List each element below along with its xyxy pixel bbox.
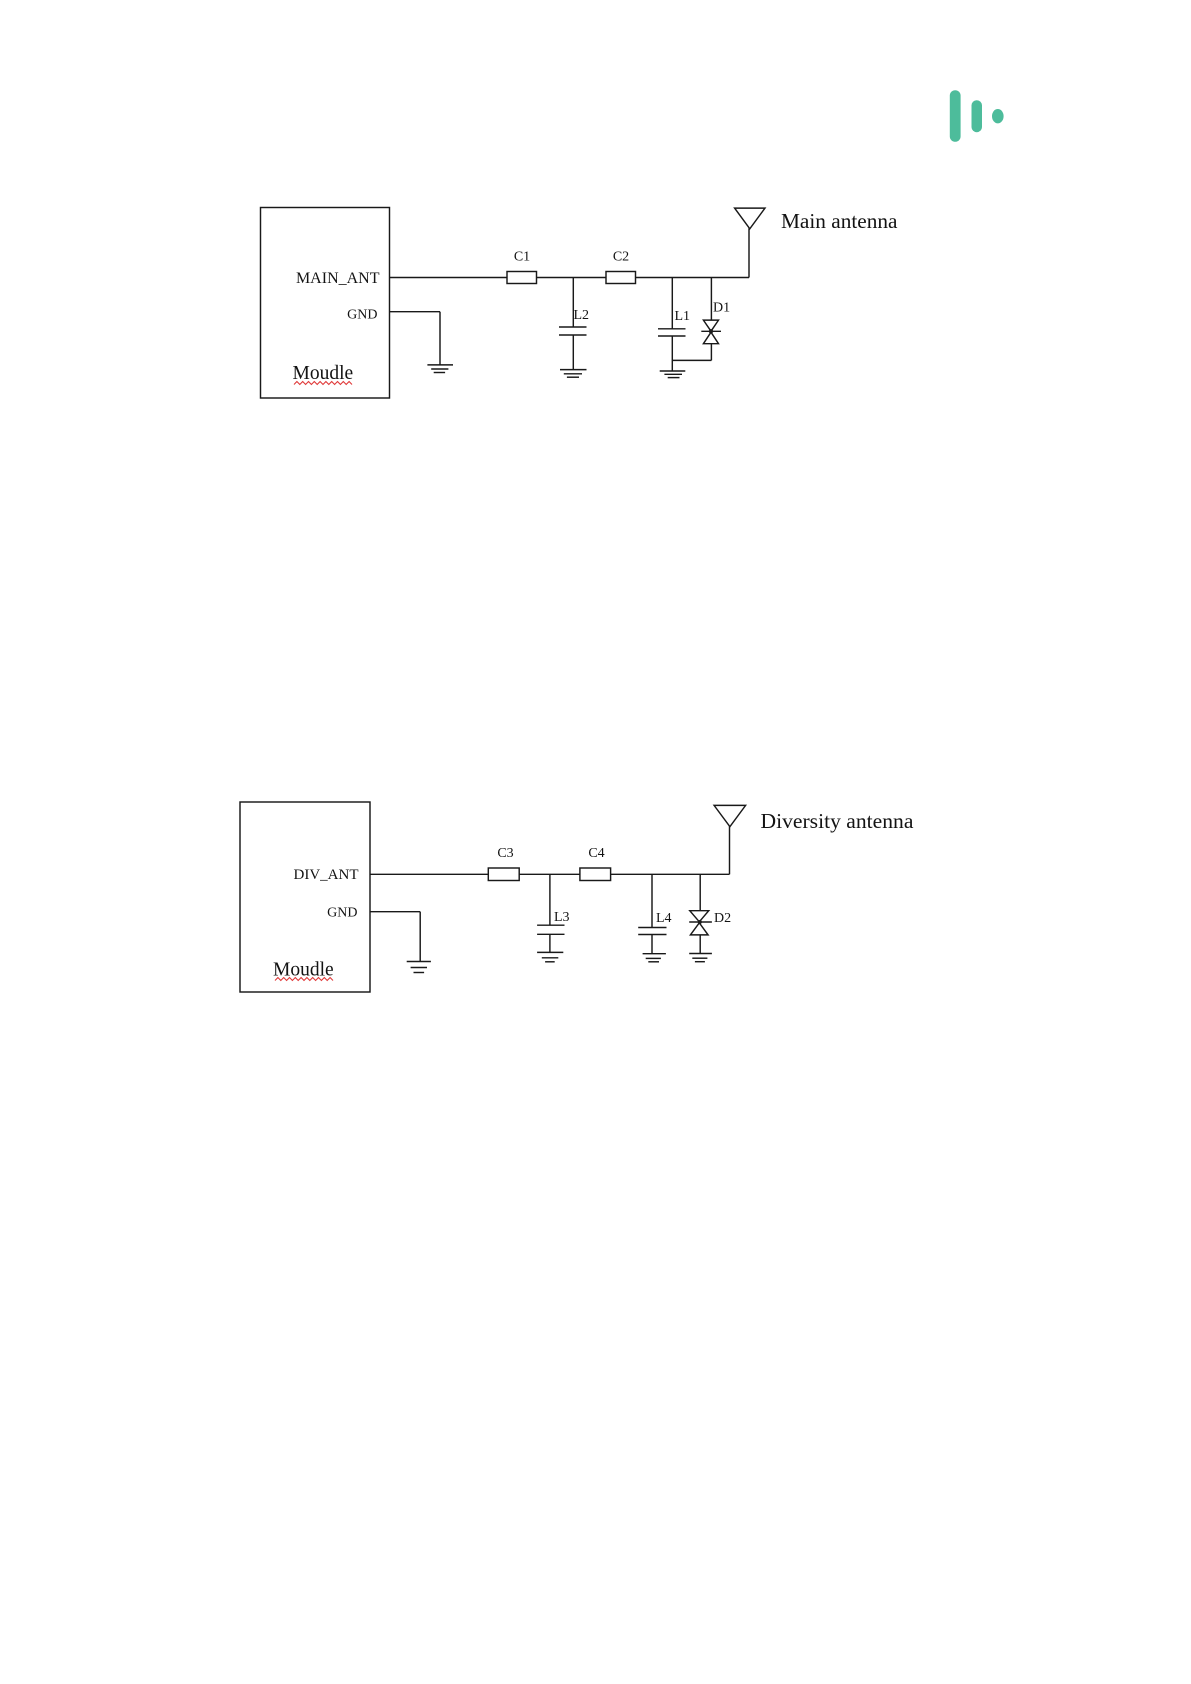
wire D1 bottom to L1 ground net xyxy=(672,344,711,361)
wire D2 to ground xyxy=(699,935,701,954)
label Diversity antenna xyxy=(761,809,914,833)
wire C2 to antenna feed through nodes L1 and D1 xyxy=(636,277,750,279)
svg-text:GND: GND xyxy=(327,906,357,921)
pin label MAIN_ANT xyxy=(296,270,380,287)
diode D2 (bidirectional TVS) xyxy=(689,911,712,935)
svg-text:L4: L4 xyxy=(656,911,672,926)
pin label GND (main) xyxy=(347,307,377,322)
wire L4 branch diversity xyxy=(651,874,653,927)
wire C1 to C2 through node L2 xyxy=(537,277,607,279)
wire MAIN_ANT pin to C1 xyxy=(390,277,508,279)
wire L4 to ground xyxy=(651,935,653,954)
svg-text:Main antenna: Main antenna xyxy=(781,209,898,233)
module box (diversity) xyxy=(240,802,370,992)
logo xyxy=(950,90,1004,142)
svg-text:Moudle: Moudle xyxy=(293,363,354,384)
label C1 xyxy=(514,250,530,265)
spellcheck squiggle under Moudle (main) xyxy=(294,382,352,385)
label Main antenna xyxy=(781,209,898,233)
module box (main) xyxy=(261,208,390,399)
svg-text:C2: C2 xyxy=(613,250,629,265)
wire D2 branch diversity xyxy=(699,874,701,910)
label C3 xyxy=(497,846,513,861)
diode D1 (bidirectional TVS) xyxy=(701,320,721,344)
component L4 (shunt capacitor symbol) xyxy=(638,928,666,935)
wire L1 branch upper xyxy=(671,278,673,329)
label D1 xyxy=(713,301,730,316)
component L1 (shunt capacitor symbol) xyxy=(658,329,686,336)
svg-text:MAIN_ANT: MAIN_ANT xyxy=(296,270,380,287)
component L2 (shunt capacitor symbol) xyxy=(559,327,587,335)
svg-text:Diversity antenna: Diversity antenna xyxy=(761,809,914,833)
svg-text:D1: D1 xyxy=(713,301,730,316)
wire L2 branch upper xyxy=(572,278,574,328)
svg-text:C4: C4 xyxy=(588,846,604,861)
wire C4 to antenna feed through nodes L4 and D2 xyxy=(611,873,730,875)
svg-text:DIV_ANT: DIV_ANT xyxy=(294,867,359,883)
capacitor C2 xyxy=(606,272,636,284)
wire L2 to ground xyxy=(572,335,574,370)
wire DIV_ANT pin to C3 xyxy=(370,873,488,875)
label C4 xyxy=(588,846,604,861)
label Moudle (main) xyxy=(293,363,354,384)
wire L3 to ground xyxy=(549,934,551,952)
antenna (diversity) xyxy=(714,805,746,874)
ground (L4) xyxy=(643,954,666,962)
svg-text:L2: L2 xyxy=(574,308,590,323)
capacitor C1 xyxy=(507,272,537,284)
wire C3 to C4 through node L3 xyxy=(519,873,580,875)
label L3 xyxy=(554,910,570,925)
capacitor C4 xyxy=(580,868,611,881)
ground (module GND, diversity) xyxy=(407,962,431,973)
label L1 xyxy=(675,309,691,324)
ground (D2) xyxy=(689,954,712,962)
antenna (main) xyxy=(735,208,765,277)
wire L3 branch diversity xyxy=(549,874,551,925)
ground (module GND, main) xyxy=(427,365,453,373)
ground (L3) xyxy=(537,952,563,961)
spellcheck squiggle under Moudle (diversity) xyxy=(275,978,333,981)
label D2 xyxy=(714,911,731,926)
wire GND pin to ground (main) xyxy=(390,312,441,365)
pin label DIV_ANT xyxy=(294,867,359,883)
wire L1 to ground xyxy=(671,336,673,371)
pin label GND (diversity) xyxy=(327,906,357,921)
ground (L2) xyxy=(560,370,587,378)
svg-text:L1: L1 xyxy=(675,309,691,324)
wire D1 branch upper xyxy=(710,278,712,321)
capacitor C3 xyxy=(488,868,519,881)
svg-text:D2: D2 xyxy=(714,911,731,926)
label C2 xyxy=(613,250,629,265)
svg-text:C1: C1 xyxy=(514,250,530,265)
label L4 xyxy=(656,911,672,926)
label L2 xyxy=(574,308,590,323)
svg-text:C3: C3 xyxy=(497,846,513,861)
svg-text:L3: L3 xyxy=(554,910,570,925)
ground (L1) xyxy=(660,371,686,378)
svg-text:GND: GND xyxy=(347,307,377,322)
component L3 (shunt capacitor symbol) xyxy=(537,925,564,934)
label Moudle (diversity) xyxy=(273,959,334,980)
wire GND pin to ground (diversity) xyxy=(370,912,420,962)
